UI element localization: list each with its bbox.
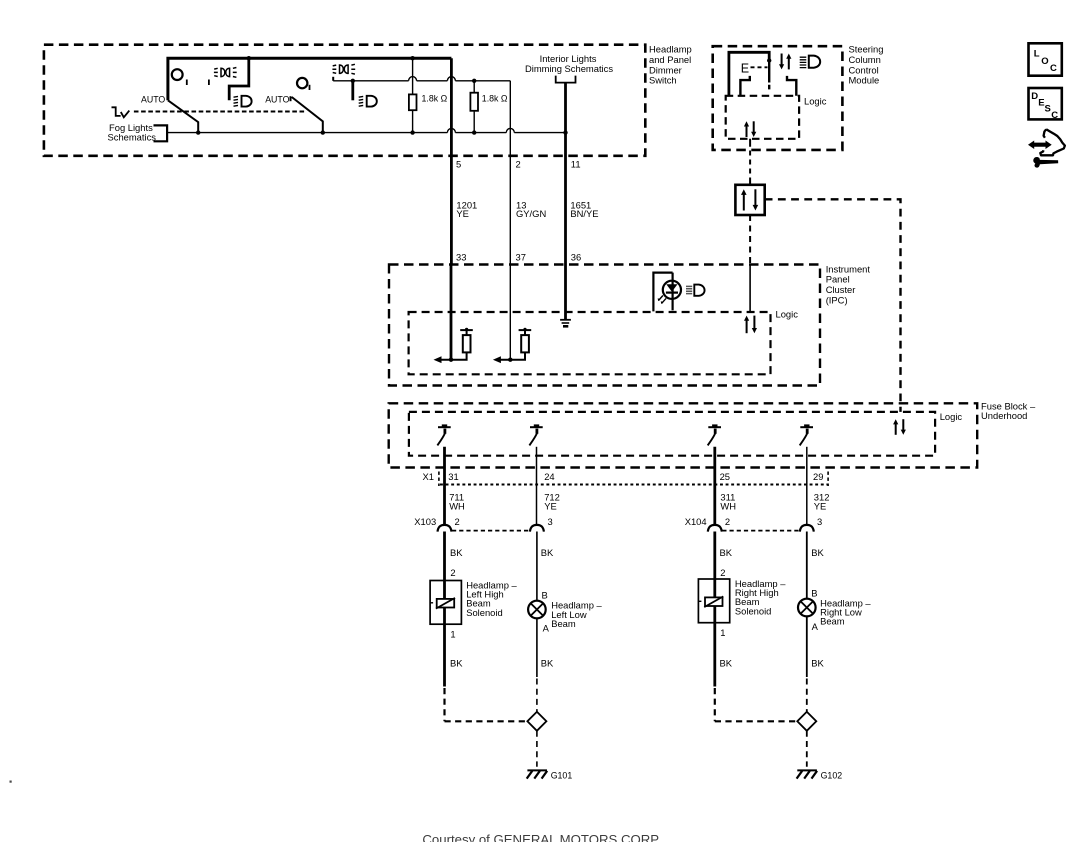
svg-text:Panel: Panel: [826, 274, 850, 285]
wire dashed serial data to IPC: [749, 215, 751, 265]
wire dashed auto position line: [134, 111, 306, 113]
wire dashed left lamp to splice: [536, 679, 538, 712]
svg-text:3: 3: [548, 516, 553, 527]
wire SCCM fixed contact step: [740, 76, 749, 96]
svg-text:25: 25: [720, 471, 730, 482]
SCCM up-down arrows top: [779, 54, 791, 70]
parking lamps icon 2: [332, 64, 355, 74]
svg-text:Switch: Switch: [649, 74, 677, 85]
svg-text:BN/YE: BN/YE: [570, 208, 598, 219]
wire BK right lamp upper: [807, 532, 825, 599]
svg-text:B: B: [542, 590, 548, 601]
headlamp low beam icon 2: [359, 96, 377, 107]
svg-text:S: S: [1045, 104, 1051, 115]
svg-text:2: 2: [455, 516, 460, 527]
svg-text:and Panel: and Panel: [649, 54, 691, 65]
svg-text:YE: YE: [814, 501, 827, 512]
wire SCCM switch frame: [729, 52, 769, 96]
svg-text:2: 2: [720, 567, 725, 578]
svg-text:Underhood: Underhood: [981, 410, 1027, 421]
svg-text:Solenoid: Solenoid: [466, 607, 503, 618]
switch SW2 off position circle: [297, 78, 307, 88]
node dot SCCM switch: [767, 58, 771, 62]
wire BK left solenoid upper: [445, 532, 464, 581]
connector X104: [685, 516, 823, 531]
svg-text:33: 33: [456, 251, 466, 262]
wire dashed right lamp to splice: [806, 679, 808, 712]
fuse block logic up-down arrows: [893, 419, 906, 435]
node dot wire37 to VR2: [508, 358, 512, 362]
wire serial data SCCM to comm node: [749, 139, 751, 185]
svg-text:BK: BK: [720, 658, 733, 669]
svg-text:A: A: [543, 623, 550, 634]
connector X1: [423, 471, 829, 486]
svg-text:37: 37: [516, 251, 526, 262]
node dot pin11 wire on lower bus: [563, 130, 567, 134]
stray dot: [10, 781, 12, 783]
node dot SW1 blade to bus: [196, 130, 200, 134]
svg-text:C: C: [1051, 110, 1058, 121]
LOC nav icon: [1029, 43, 1062, 75]
fuse block logic box: [409, 411, 963, 456]
wire parking bus with left contact tick: [333, 77, 510, 81]
svg-text:X104: X104: [685, 516, 707, 527]
wire 33 inside IPC: [450, 265, 453, 360]
svg-text:E: E: [741, 62, 749, 76]
solenoid L1 headlamp left high beam: [430, 579, 517, 639]
wire dashed serial data to fuse block: [765, 199, 901, 412]
wire 13 GY/GN pin 2: [510, 81, 546, 265]
svg-text:BK: BK: [541, 658, 554, 669]
SCCM logic box: [726, 95, 827, 139]
svg-text:Schematics: Schematics: [108, 131, 157, 142]
node dot parking contact 2: [351, 79, 355, 83]
SCCM logic up-down arrows: [744, 121, 756, 137]
svg-text:BK: BK: [720, 547, 733, 558]
wire headlamp contact 1 step: [229, 58, 249, 100]
svg-text:1.8k Ω: 1.8k Ω: [482, 94, 508, 104]
wire lower bus in dimmer switch: [167, 128, 565, 132]
wire dashed left solenoid to splice: [445, 688, 528, 721]
SW1 position tick 1: [186, 80, 188, 86]
svg-text:2: 2: [725, 516, 730, 527]
svg-text:AUTO: AUTO: [141, 95, 165, 105]
wire headlamp contact 2: [351, 81, 354, 101]
wire 36 inside IPC: [564, 265, 567, 320]
resistor R2 1.8k: [470, 81, 478, 133]
svg-text:Logic: Logic: [804, 95, 827, 106]
fuse block underhood box: [389, 401, 1036, 468]
wire 1651 BN/YE pin 11: [566, 83, 599, 265]
potentiometer VR1 in IPC: [434, 328, 473, 363]
headlamp icon IPC indicator: [686, 285, 705, 296]
svg-text:11: 11: [571, 158, 581, 169]
relay driver switch K4 in fuse block: [800, 424, 813, 445]
solenoid L2 headlamp right high beam: [698, 578, 786, 638]
svg-text:BK: BK: [450, 658, 463, 669]
wire BK left lamp upper: [537, 532, 554, 601]
ground G102: [797, 770, 843, 780]
IPC logic box: [409, 308, 799, 374]
wire dashed splice to G101: [536, 731, 538, 767]
svg-text:BK: BK: [450, 547, 463, 558]
wire SCCM blade vertical: [768, 61, 770, 90]
svg-text:Steering: Steering: [849, 44, 884, 55]
node dot wire33 to VR1: [449, 358, 453, 362]
ground G101: [527, 770, 573, 780]
SW2 position tick: [309, 85, 311, 90]
svg-text:Cluster: Cluster: [826, 284, 856, 295]
serial data gateway box U1: [735, 185, 764, 215]
DESC nav icon: [1029, 88, 1062, 121]
splice S2: [797, 712, 816, 731]
wire dashed splice to G102: [806, 731, 808, 767]
svg-text:Courtesy of GENERAL MOTORS COR: Courtesy of GENERAL MOTORS CORP.: [422, 832, 661, 842]
svg-text:1: 1: [720, 627, 725, 638]
wire 37 inside IPC: [509, 265, 511, 360]
wire dashed right solenoid to splice: [715, 688, 797, 721]
lamp E2 headlamp right low beam: [798, 597, 871, 632]
IPC logic up-down arrows: [744, 316, 757, 334]
svg-text:29: 29: [813, 471, 823, 482]
wire BK left solenoid lower: [445, 624, 464, 686]
svg-text:Beam: Beam: [551, 618, 576, 629]
wire SCCM arrows step: [787, 76, 796, 96]
svg-text:L: L: [1034, 49, 1040, 60]
svg-text:B: B: [811, 588, 817, 599]
svg-text:2: 2: [516, 158, 521, 169]
wire top feed bar of dimmer switch: [168, 58, 452, 100]
splice S1: [527, 712, 546, 731]
ground symbol IPC: [560, 320, 571, 327]
svg-text:Column: Column: [849, 54, 881, 65]
node dot SW2 blade to bus: [321, 130, 325, 134]
svg-text:BK: BK: [811, 658, 824, 669]
steering column control module box: [713, 44, 884, 150]
wire 711 WH: [445, 447, 465, 524]
svg-text:AUTO: AUTO: [265, 95, 289, 105]
wire 311 WH: [715, 447, 736, 524]
svg-text:GY/GN: GY/GN: [516, 208, 546, 219]
headlamp high beam icon SCCM: [800, 56, 820, 68]
relay driver switch K2 in fuse block: [529, 424, 542, 445]
svg-text:BK: BK: [811, 547, 824, 558]
wire BK right solenoid upper: [715, 532, 733, 580]
node dot R2 top: [472, 79, 476, 83]
svg-text:Beam: Beam: [820, 616, 845, 627]
svg-text:G102: G102: [821, 771, 843, 781]
wire 1201 YE pin 5: [451, 58, 477, 264]
svg-text:G101: G101: [551, 771, 573, 781]
wire BK left lamp lower: [537, 618, 554, 677]
svg-text:1: 1: [450, 628, 455, 639]
svg-text:Instrument: Instrument: [826, 263, 871, 274]
node dot headlamp contact 1 on feed bar: [247, 56, 251, 60]
wire 712 YE: [537, 447, 560, 524]
instrument panel cluster box: [389, 263, 870, 385]
node dot R2 bottom: [472, 130, 476, 134]
wire 312 YE: [807, 447, 830, 524]
fog lights schematics tag: [108, 122, 168, 142]
svg-text:WH: WH: [449, 501, 465, 512]
interior lights dimming schematics tag: [525, 53, 613, 83]
wire BK right lamp lower: [807, 616, 825, 677]
switch SW1 blade: [168, 100, 198, 132]
svg-text:31: 31: [448, 471, 458, 482]
node dot R1 top: [410, 56, 414, 60]
wire BK right solenoid lower: [715, 623, 733, 687]
relay driver switch K1 in fuse block: [437, 424, 450, 445]
svg-text:YE: YE: [544, 501, 557, 512]
headlamp low beam icon 1: [234, 96, 252, 107]
indicator lamp LED in IPC: [653, 273, 681, 312]
svg-text:2: 2: [450, 567, 455, 578]
svg-text:X1: X1: [423, 471, 434, 482]
wiring nav icon: [1029, 129, 1065, 167]
svg-text:O: O: [1041, 56, 1048, 67]
resistor R1 1.8k: [409, 58, 417, 132]
switch SW1 off position circle: [172, 69, 183, 80]
svg-text:1.8k Ω: 1.8k Ω: [422, 94, 448, 104]
relay driver switch K3 in fuse block: [708, 424, 721, 445]
lamp E1 headlamp left low beam: [528, 600, 602, 634]
svg-text:X103: X103: [414, 516, 436, 527]
svg-text:5: 5: [456, 158, 461, 169]
svg-text:A: A: [812, 621, 819, 632]
svg-text:Solenoid: Solenoid: [735, 605, 772, 616]
svg-text:36: 36: [571, 251, 581, 262]
svg-text:Module: Module: [849, 74, 880, 85]
connector X103: [414, 516, 552, 531]
parking lamps icon 1: [214, 68, 237, 78]
svg-text:Headlamp: Headlamp: [649, 44, 692, 55]
SW1 position tick 2: [208, 80, 210, 86]
svg-text:3: 3: [817, 516, 822, 527]
svg-text:24: 24: [544, 471, 554, 482]
svg-text:Logic: Logic: [940, 411, 963, 422]
svg-text:BK: BK: [541, 547, 554, 558]
svg-text:C: C: [1050, 63, 1057, 74]
node dot R1 bottom: [410, 130, 414, 134]
svg-text:WH: WH: [720, 501, 736, 512]
svg-text:Dimming Schematics: Dimming Schematics: [525, 63, 613, 74]
flash to pass symbol: [112, 107, 130, 117]
wire dashed E to contact: [751, 66, 768, 68]
svg-text:(IPC): (IPC): [826, 295, 848, 306]
svg-text:Logic: Logic: [776, 308, 799, 319]
potentiometer VR2 in IPC: [493, 328, 531, 363]
svg-text:YE: YE: [456, 208, 469, 219]
SW2 pivot tick: [290, 96, 292, 101]
headlamp and panel dimmer switch box S1: [44, 44, 692, 156]
wire serial data inside IPC: [749, 265, 751, 313]
switch SW2 blade: [292, 97, 323, 133]
